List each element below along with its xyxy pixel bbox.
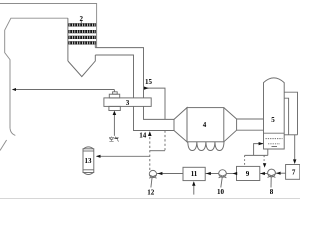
device 4 body	[187, 108, 224, 142]
svg-text:8: 8	[270, 188, 274, 196]
svg-text:10: 10	[217, 188, 225, 196]
air injection line into device 3	[113, 113, 115, 136]
dashed drop to box 9	[244, 155, 246, 166]
pump 12 leader	[151, 178, 152, 188]
arrowhead into box 9 right	[260, 172, 265, 175]
boiler outline	[5, 18, 68, 128]
arrowhead air into device 3	[113, 111, 117, 115]
duct from 4 to vessel 5	[237, 118, 264, 120]
device 4 left cone	[173, 119, 175, 130]
vessel 13 domed caps	[83, 147, 94, 175]
arrowhead into pump 12	[158, 172, 163, 175]
arrowhead into pump 10 line	[233, 172, 238, 175]
line 15 continuation to drain	[164, 131, 166, 151]
boiler right wall	[67, 18, 69, 61]
svg-text:13: 13	[85, 157, 93, 165]
heat exchanger hatch ticks	[70, 25, 97, 43]
short wall above outlet mouth	[94, 45, 96, 48]
recirculation line 15	[144, 88, 166, 119]
vessel 5 liquid level	[264, 132, 285, 134]
arrowhead 14 into duct	[148, 131, 152, 136]
pump 8	[268, 169, 276, 177]
vessel 5 dome	[264, 78, 285, 83]
top flue duct line from boiler top	[0, 4, 97, 48]
downcomer below device 3	[144, 106, 175, 119]
svg-text:11: 11	[191, 170, 198, 178]
arrowhead into vessel 13	[96, 155, 101, 158]
downpipe to box 7	[294, 135, 296, 162]
vessel 5 body	[264, 82, 285, 149]
flue duct to downcomer (top wall)	[95, 48, 143, 98]
device 3 bottom bump	[109, 106, 120, 110]
pump 12	[149, 170, 156, 177]
drain link to riser	[150, 150, 165, 152]
arrowhead return-to-boiler	[12, 88, 16, 91]
T-junction riser to vessel 5 tank	[254, 144, 263, 156]
svg-text:2: 2	[80, 15, 84, 23]
svg-text:9: 9	[246, 170, 250, 178]
backpass hopper V under heat exchanger	[68, 55, 95, 77]
device 4 right cone	[224, 108, 237, 142]
arrowhead into vessel 5 tank	[259, 142, 264, 145]
arrowhead down into box 7	[293, 159, 296, 164]
dashed drop to pump 8	[263, 155, 265, 164]
bottom border artifact	[0, 198, 300, 200]
tank drain to T	[267, 149, 269, 155]
feeder neck of device 3	[113, 90, 118, 95]
device 3 top bump	[109, 94, 119, 98]
overflow line from tank	[284, 134, 297, 136]
vessel 5 bottom edge	[264, 148, 285, 150]
svg-text:7: 7	[292, 169, 296, 177]
svg-text:15: 15	[145, 78, 153, 86]
sorbent riser from pump 12 (dashed)	[149, 133, 151, 171]
svg-text:12: 12	[147, 189, 155, 197]
arrowhead into pump 8 right	[276, 172, 281, 175]
svg-text:空气: 空气	[109, 136, 119, 143]
return line to boiler	[13, 89, 114, 91]
device 4 scalloped hoppers	[188, 142, 224, 151]
label 2 tick	[80, 21, 82, 23]
vessel 13 shell lines	[83, 150, 94, 152]
gas outlet duct from vessel 5 top	[284, 92, 297, 135]
arrowhead down to pump 8 top	[263, 163, 266, 167]
svg-text:14: 14	[139, 132, 147, 140]
bottom row pipe segments	[157, 173, 183, 175]
box 7	[286, 165, 300, 180]
boiler bottom corner fragment	[0, 140, 7, 151]
arrowhead into box 11 right	[206, 172, 211, 175]
flue duct to downcomer (bottom wall)	[95, 55, 133, 98]
box 11	[183, 167, 205, 180]
vessel 13 body	[83, 149, 94, 173]
device 3 body	[104, 98, 151, 107]
arrowhead line 15	[144, 87, 149, 90]
svg-text:3: 3	[126, 99, 130, 107]
branch to vessel 13	[97, 155, 150, 157]
pump 10	[219, 170, 227, 178]
svg-text:5: 5	[271, 116, 275, 124]
arrowhead up into box 11 bottom	[192, 181, 195, 186]
svg-text:4: 4	[203, 121, 207, 129]
vessel 5 liquid hatch lines	[266, 138, 283, 140]
boiler bottom-left curl	[10, 128, 15, 135]
pump 10 leader	[221, 177, 222, 187]
heat exchanger 2 hatched tube banks	[68, 25, 96, 43]
box 9	[237, 166, 260, 180]
pump 8 leader	[270, 177, 272, 188]
box 11 bottom feed line	[193, 182, 195, 194]
